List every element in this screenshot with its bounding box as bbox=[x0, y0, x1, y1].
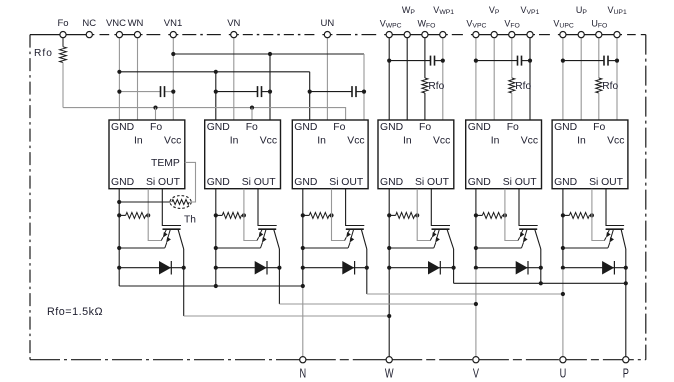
svg-text:VN1: VN1 bbox=[164, 18, 182, 29]
svg-text:OUT: OUT bbox=[515, 177, 538, 188]
svg-text:Rfo: Rfo bbox=[428, 81, 444, 92]
svg-text:VN: VN bbox=[227, 18, 240, 29]
svg-text:In: In bbox=[134, 136, 143, 147]
svg-text:GND: GND bbox=[294, 122, 317, 133]
svg-text:In: In bbox=[317, 136, 326, 147]
svg-text:In: In bbox=[230, 136, 239, 147]
svg-text:GND: GND bbox=[468, 177, 491, 188]
svg-text:W: W bbox=[385, 367, 394, 381]
svg-text:VNC: VNC bbox=[106, 18, 126, 29]
svg-text:Rfo: Rfo bbox=[602, 81, 618, 92]
svg-text:V: V bbox=[473, 367, 480, 381]
svg-text:Vcc: Vcc bbox=[521, 136, 538, 147]
svg-text:OUT: OUT bbox=[341, 177, 364, 188]
svg-text:OUT: OUT bbox=[254, 177, 277, 188]
svg-text:NC: NC bbox=[82, 18, 96, 29]
svg-text:In: In bbox=[403, 136, 412, 147]
svg-text:GND: GND bbox=[207, 122, 230, 133]
svg-text:OUT: OUT bbox=[158, 177, 181, 188]
svg-text:Vcc: Vcc bbox=[164, 136, 181, 147]
svg-text:OUT: OUT bbox=[601, 177, 624, 188]
svg-text:Si: Si bbox=[146, 177, 155, 188]
svg-text:Fo: Fo bbox=[57, 18, 68, 29]
svg-text:GND: GND bbox=[380, 122, 403, 133]
svg-text:Fo: Fo bbox=[150, 122, 162, 133]
svg-text:GND: GND bbox=[468, 122, 491, 133]
svg-text:OUT: OUT bbox=[427, 177, 450, 188]
svg-text:Fo: Fo bbox=[246, 122, 258, 133]
svg-text:Si: Si bbox=[242, 177, 251, 188]
svg-text:UN: UN bbox=[321, 18, 335, 29]
svg-text:WN: WN bbox=[128, 18, 144, 29]
svg-text:Si: Si bbox=[415, 177, 424, 188]
svg-text:Si: Si bbox=[329, 177, 338, 188]
svg-text:GND: GND bbox=[554, 177, 577, 188]
svg-text:GND: GND bbox=[207, 177, 230, 188]
svg-text:Fo: Fo bbox=[333, 122, 345, 133]
svg-text:Th: Th bbox=[184, 214, 196, 225]
svg-text:GND: GND bbox=[294, 177, 317, 188]
svg-text:Vcc: Vcc bbox=[607, 136, 624, 147]
svg-text:In: In bbox=[491, 136, 500, 147]
svg-text:Si: Si bbox=[589, 177, 598, 188]
svg-text:Fo: Fo bbox=[593, 122, 605, 133]
svg-text:Fo: Fo bbox=[507, 122, 519, 133]
svg-text:TEMP: TEMP bbox=[151, 158, 180, 169]
svg-text:GND: GND bbox=[554, 122, 577, 133]
svg-text:Vcc: Vcc bbox=[347, 136, 364, 147]
svg-text:Vcc: Vcc bbox=[433, 136, 450, 147]
svg-text:In: In bbox=[577, 136, 586, 147]
svg-text:Si: Si bbox=[503, 177, 512, 188]
svg-text:GND: GND bbox=[380, 177, 403, 188]
svg-text:Vcc: Vcc bbox=[260, 136, 277, 147]
svg-text:Rfo: Rfo bbox=[515, 81, 531, 92]
svg-text:GND: GND bbox=[111, 177, 134, 188]
svg-text:Rfo: Rfo bbox=[34, 48, 53, 59]
svg-text:Fo: Fo bbox=[419, 122, 431, 133]
svg-text:Rfo=1.5kΩ: Rfo=1.5kΩ bbox=[47, 306, 103, 318]
svg-text:GND: GND bbox=[111, 122, 134, 133]
svg-text:P: P bbox=[623, 367, 629, 381]
svg-text:U: U bbox=[560, 367, 567, 381]
svg-text:N: N bbox=[299, 367, 306, 381]
